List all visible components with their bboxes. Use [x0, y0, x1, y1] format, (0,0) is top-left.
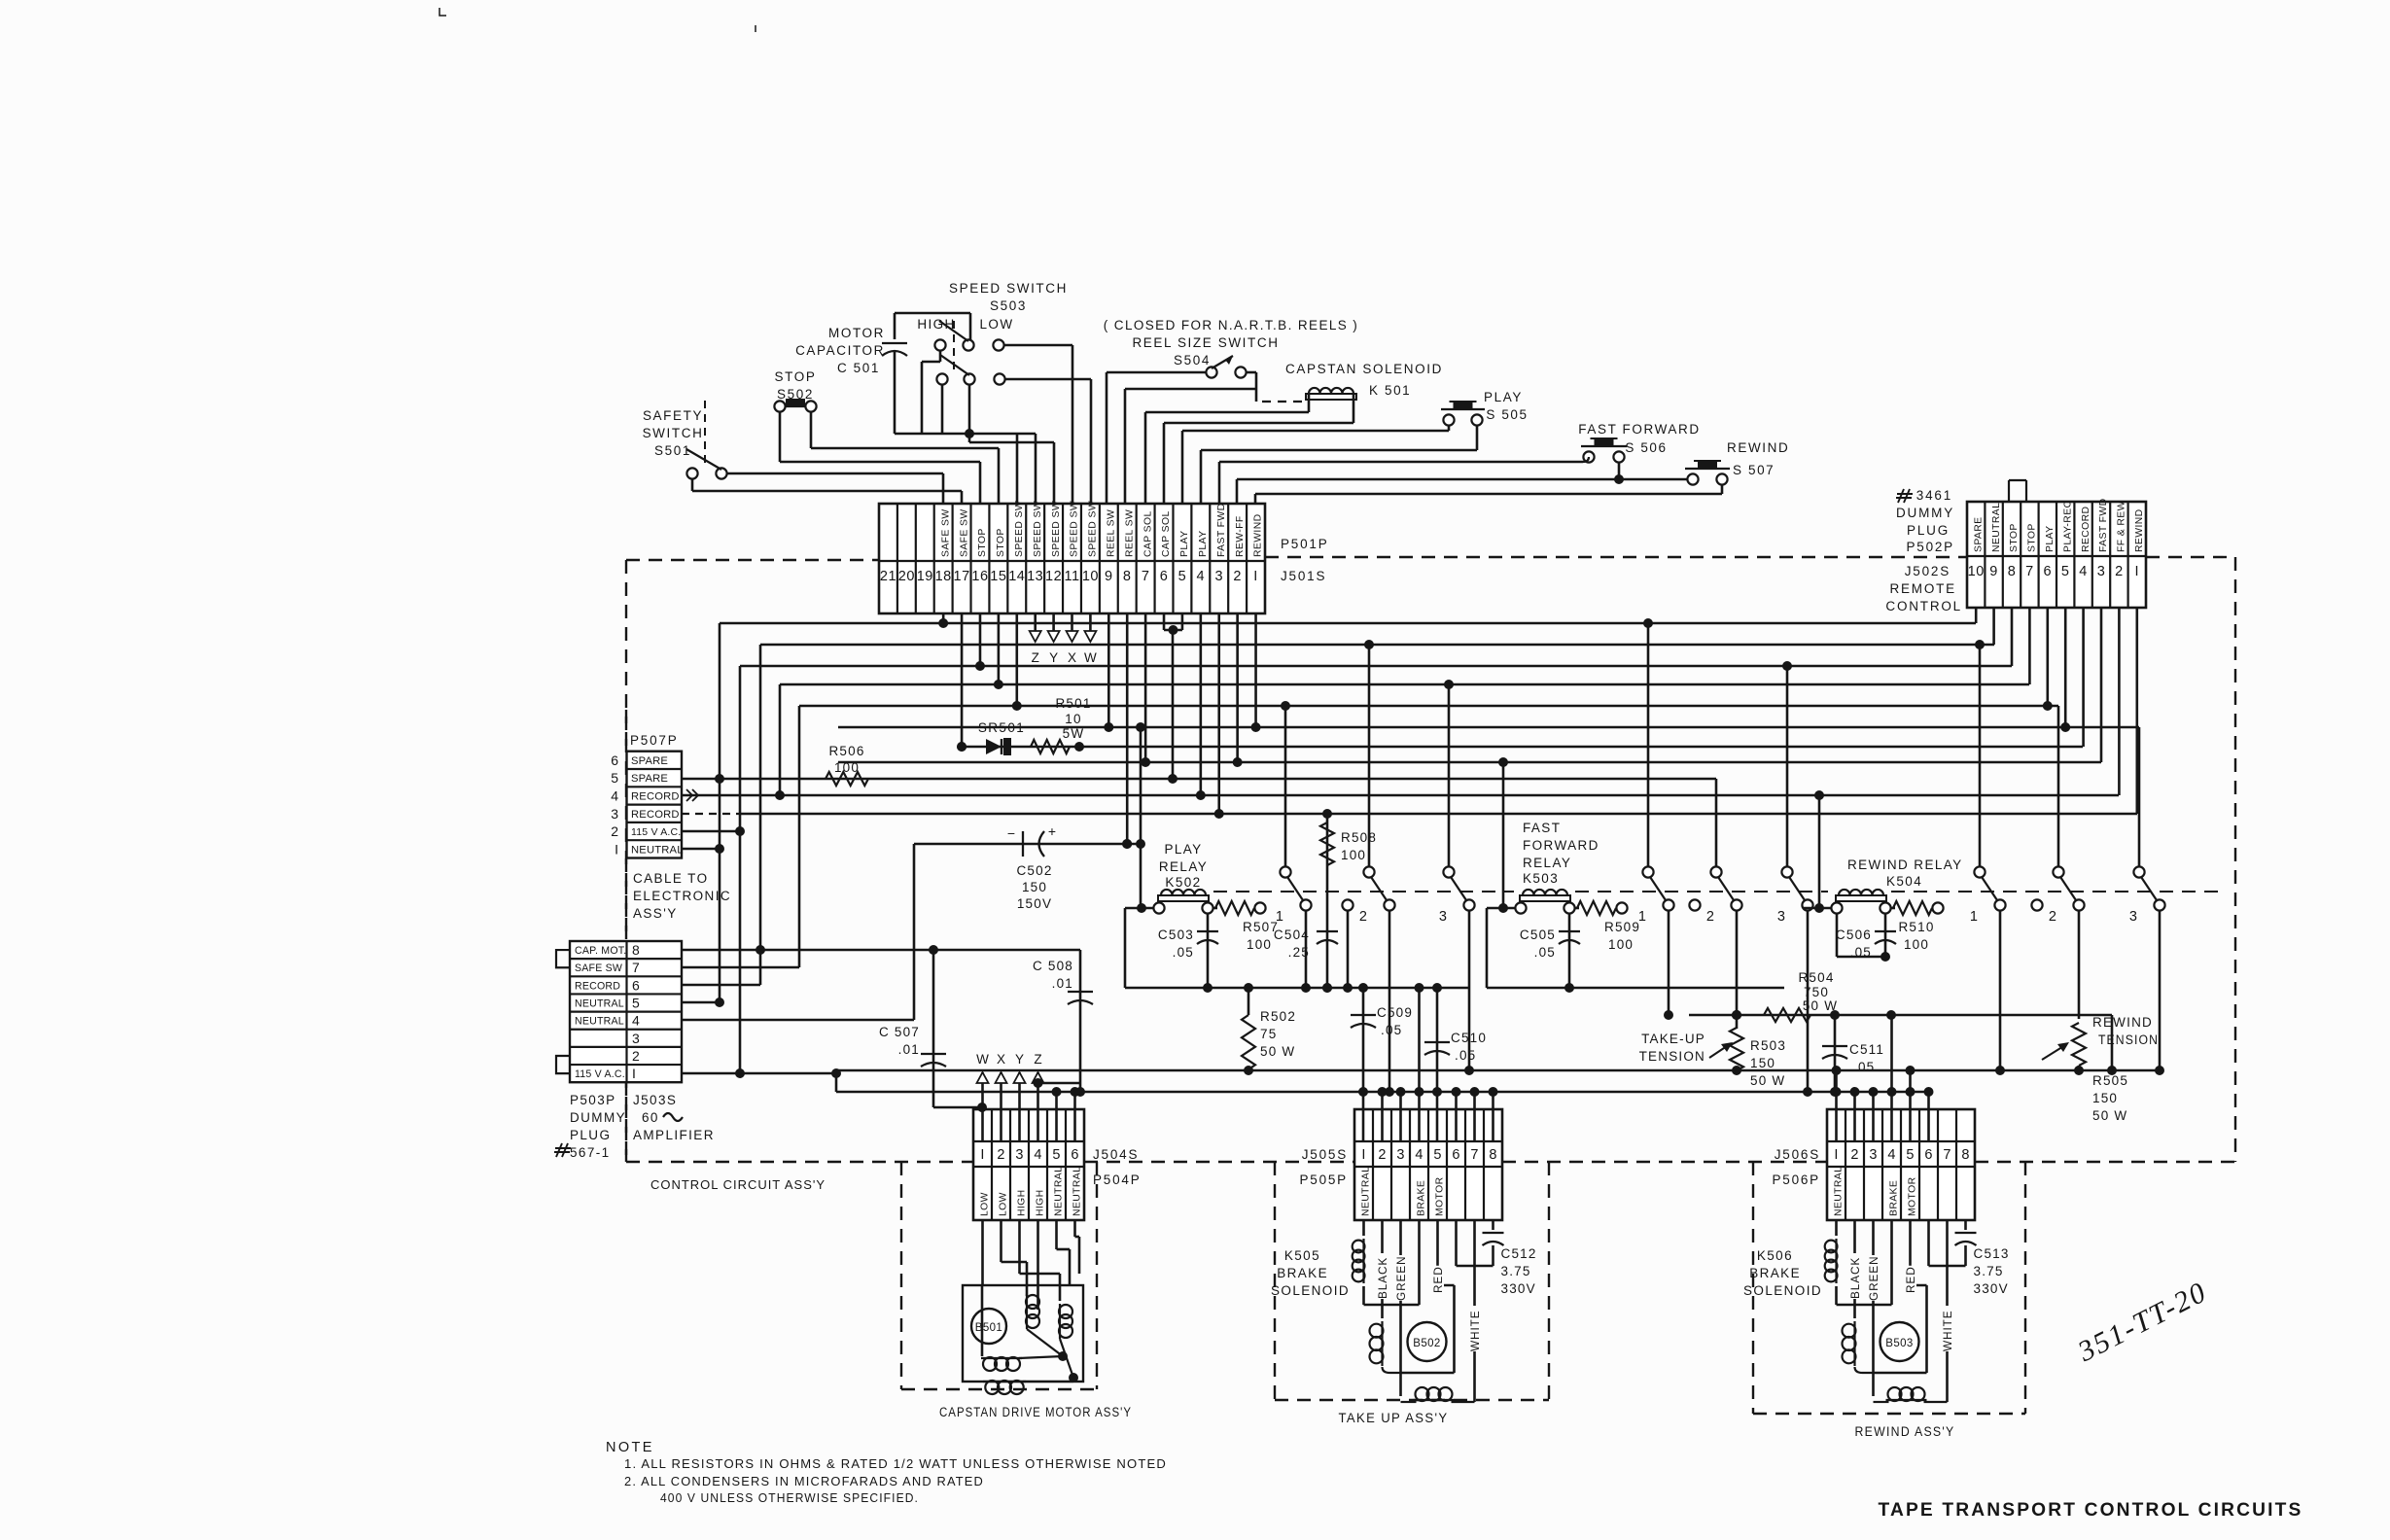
- svg-text:P502P: P502P: [1906, 540, 1954, 554]
- svg-text:C510: C510: [1451, 1031, 1487, 1045]
- svg-text:3: 3: [632, 1031, 640, 1046]
- svg-text:STOP: STOP: [996, 528, 1006, 557]
- svg-text:7: 7: [1142, 569, 1150, 584]
- svg-text:ELECTRONIC: ELECTRONIC: [633, 889, 731, 903]
- svg-text:LOW: LOW: [980, 1192, 991, 1216]
- svg-text:TAKE UP ASS'Y: TAKE UP ASS'Y: [1339, 1411, 1449, 1425]
- svg-text:I: I: [1834, 1147, 1838, 1163]
- svg-text:SPARE: SPARE: [631, 773, 668, 785]
- svg-text:GREEN: GREEN: [1394, 1256, 1408, 1301]
- connector P501P / J501S: [879, 504, 1265, 613]
- svg-text:5: 5: [1906, 1147, 1914, 1163]
- svg-text:REEL SW: REEL SW: [1124, 509, 1135, 557]
- svg-text:150: 150: [2092, 1091, 2118, 1105]
- svg-text:RECORD: RECORD: [575, 980, 620, 992]
- svg-text:SAFETY: SAFETY: [643, 408, 703, 423]
- svg-text:150: 150: [1022, 880, 1047, 894]
- svg-text:AMPLIFIER: AMPLIFIER: [633, 1128, 715, 1142]
- svg-text:I: I: [1253, 569, 1258, 584]
- svg-text:RED: RED: [1431, 1266, 1445, 1293]
- svg-text:PLUG: PLUG: [1907, 523, 1950, 538]
- svg-text:3: 3: [1396, 1147, 1404, 1163]
- svg-text:HIGH: HIGH: [1036, 1189, 1046, 1216]
- resistor R501 10 5W: [1031, 740, 1070, 753]
- svg-text:NEUTRAL: NEUTRAL: [1054, 1167, 1065, 1216]
- svg-text:C 507: C 507: [879, 1025, 920, 1039]
- svg-text:15: 15: [990, 569, 1006, 584]
- svg-text:BRAKE: BRAKE: [1749, 1266, 1801, 1280]
- svg-text:C509: C509: [1377, 1005, 1413, 1020]
- svg-text:330V: 330V: [1974, 1281, 2009, 1296]
- svg-text:115 V A.C.: 115 V A.C.: [575, 1068, 625, 1080]
- svg-text:TENSION: TENSION: [1639, 1049, 1705, 1064]
- svg-text:16: 16: [971, 569, 988, 584]
- svg-text:K502: K502: [1165, 875, 1201, 890]
- svg-text:REEL SW: REEL SW: [1107, 509, 1117, 557]
- svg-text:S 506: S 506: [1625, 440, 1667, 455]
- brake solenoid K505: [1362, 1220, 1365, 1236]
- svg-text:X: X: [1068, 650, 1076, 665]
- svg-text:7: 7: [1470, 1147, 1478, 1163]
- svg-text:P501P: P501P: [1281, 537, 1329, 551]
- svg-text:SPEED SW: SPEED SW: [1051, 501, 1062, 557]
- svg-text:150: 150: [1750, 1056, 1775, 1070]
- wire rewind motor leads: [1853, 1220, 1856, 1318]
- svg-text:SR501: SR501: [978, 720, 1025, 735]
- svg-text:PLAY: PLAY: [1198, 531, 1209, 557]
- svg-text:C511: C511: [1849, 1042, 1884, 1057]
- svg-text:REWIND: REWIND: [1727, 440, 1789, 455]
- capstan motor wires from J504S: [981, 1220, 984, 1285]
- svg-text:MOTOR: MOTOR: [1435, 1176, 1446, 1216]
- svg-text:SAFE SW: SAFE SW: [940, 508, 951, 557]
- wire lower bus y=1123: [836, 1091, 1928, 1094]
- svg-text:SPEED SW: SPEED SW: [1014, 501, 1025, 557]
- svg-text:STOP: STOP: [977, 528, 988, 557]
- svg-text:REMOTE: REMOTE: [1889, 581, 1956, 596]
- svg-text:I: I: [615, 841, 618, 857]
- svg-text:3: 3: [1214, 569, 1223, 584]
- svg-text:P503P: P503P: [570, 1093, 616, 1107]
- svg-text:100: 100: [1608, 937, 1634, 952]
- svg-text:TAPE TRANSPORT CONTROL CIRC: TAPE TRANSPORT CONTROL CIRCUITS: [1879, 1499, 2303, 1521]
- svg-text:2: 2: [2049, 909, 2056, 925]
- svg-text:FAST FORWARD: FAST FORWARD: [1578, 422, 1700, 437]
- svg-text:100: 100: [834, 760, 860, 775]
- svg-text:4: 4: [1034, 1147, 1041, 1163]
- svg-text:750: 750: [1804, 985, 1829, 999]
- connector J504S / P504P: [973, 1109, 1084, 1220]
- svg-text:TAKE-UP: TAKE-UP: [1641, 1032, 1705, 1046]
- svg-text:K504: K504: [1886, 874, 1922, 889]
- svg-text:.05: .05: [1381, 1023, 1402, 1037]
- svg-text:C 501: C 501: [837, 361, 880, 375]
- svg-text:4: 4: [2079, 564, 2088, 579]
- svg-text:3: 3: [2129, 909, 2137, 925]
- svg-text:6: 6: [1924, 1147, 1932, 1163]
- svg-text:J501S: J501S: [1281, 569, 1326, 583]
- svg-text:S 505: S 505: [1486, 407, 1528, 422]
- relay K503 contact 3: [1781, 866, 1792, 877]
- svg-text:100: 100: [1904, 937, 1929, 952]
- svg-text:400 V UNLESS OTHERWISE SPEC: 400 V UNLESS OTHERWISE SPECIFIED.: [660, 1490, 919, 1505]
- capacitor C508 .01: [682, 949, 1080, 952]
- motor B503: [1880, 1322, 1919, 1361]
- svg-text:C512: C512: [1501, 1246, 1537, 1261]
- svg-text:REEL SIZE SWITCH: REEL SIZE SWITCH: [1132, 335, 1279, 350]
- svg-text:8: 8: [632, 942, 640, 958]
- svg-text:11: 11: [1064, 569, 1079, 584]
- svg-text:ASS'Y: ASS'Y: [633, 906, 678, 921]
- svg-text:CAP. MOT.: CAP. MOT.: [575, 945, 626, 957]
- svg-text:115 V A.C.: 115 V A.C.: [631, 826, 681, 838]
- svg-text:I: I: [1361, 1147, 1365, 1163]
- svg-text:FF & REW: FF & REW: [2117, 501, 2127, 552]
- svg-text:NEUTRAL: NEUTRAL: [1991, 503, 2002, 552]
- svg-text:K503: K503: [1523, 871, 1559, 886]
- svg-text:CAPACITOR: CAPACITOR: [795, 343, 885, 358]
- svg-text:CABLE TO: CABLE TO: [633, 871, 708, 886]
- svg-text:20: 20: [898, 569, 915, 584]
- connector J505S / P505P: [1354, 1109, 1502, 1220]
- svg-text:2: 2: [632, 1048, 640, 1064]
- svg-text:SWITCH: SWITCH: [643, 426, 704, 440]
- relay K504 contact 2: [2053, 866, 2063, 877]
- wire takeup motor leads: [1381, 1220, 1384, 1318]
- wire lower bus y=1101: [836, 1069, 2160, 1072]
- svg-text:BLACK: BLACK: [1376, 1257, 1389, 1299]
- svg-text:B501: B501: [975, 1322, 1002, 1334]
- svg-text:5: 5: [611, 770, 618, 786]
- relay K502 contact 3: [1443, 866, 1454, 877]
- svg-text:CONTROL: CONTROL: [1885, 599, 1962, 613]
- svg-text:R503: R503: [1750, 1038, 1786, 1053]
- svg-text:2: 2: [611, 823, 618, 839]
- svg-text:DUMMY: DUMMY: [570, 1110, 626, 1125]
- svg-text:2: 2: [1850, 1147, 1858, 1163]
- svg-text:150V: 150V: [1017, 896, 1052, 911]
- svg-text:RELAY: RELAY: [1159, 859, 1208, 874]
- svg-text:STOP: STOP: [2027, 523, 2038, 552]
- svg-text:2: 2: [1378, 1147, 1386, 1163]
- svg-text:NEUTRAL: NEUTRAL: [1834, 1167, 1845, 1216]
- J506S pin feeds: [1835, 1070, 1838, 1141]
- svg-text:50 W: 50 W: [1260, 1044, 1295, 1059]
- capacitor C513 3.75 330V: [1964, 1220, 1967, 1230]
- svg-text:PLAY: PLAY: [2045, 526, 2056, 552]
- svg-text:10: 10: [1082, 569, 1099, 584]
- svg-text:50 W: 50 W: [1750, 1073, 1785, 1088]
- svg-text:17: 17: [954, 569, 970, 584]
- svg-text:2: 2: [997, 1147, 1004, 1163]
- svg-text:SPEED SW: SPEED SW: [1033, 501, 1043, 557]
- svg-text:SOLENOID: SOLENOID: [1271, 1283, 1350, 1298]
- svg-text:5: 5: [1052, 1147, 1060, 1163]
- svg-text:C504: C504: [1274, 927, 1310, 942]
- svg-text:K506: K506: [1757, 1248, 1793, 1263]
- svg-text:75: 75: [1260, 1027, 1277, 1041]
- svg-text:8: 8: [1123, 569, 1132, 584]
- svg-text:+: +: [1048, 823, 1056, 839]
- svg-text:2: 2: [2115, 564, 2124, 579]
- svg-text:7: 7: [2025, 564, 2034, 579]
- svg-text:6: 6: [632, 977, 640, 993]
- svg-text:BRAKE: BRAKE: [1277, 1266, 1328, 1280]
- svg-text:2: 2: [1233, 569, 1242, 584]
- svg-text:Y: Y: [1049, 650, 1058, 665]
- relay K504 contact 1: [1974, 866, 1985, 877]
- svg-text:LOW: LOW: [999, 1192, 1009, 1216]
- svg-text:Z: Z: [1032, 650, 1039, 665]
- svg-text:3461: 3461: [1916, 488, 1952, 503]
- svg-text:9: 9: [1105, 569, 1113, 584]
- svg-text:C502: C502: [1016, 863, 1052, 878]
- svg-text:FAST: FAST: [1523, 821, 1561, 835]
- svg-text:5: 5: [1178, 569, 1187, 584]
- svg-text:R505: R505: [2092, 1073, 2128, 1088]
- svg-text:3: 3: [1015, 1147, 1023, 1163]
- wire relay bottom buses: [1125, 987, 1470, 990]
- svg-text:K 501: K 501: [1369, 383, 1411, 398]
- svg-text:NEUTRAL: NEUTRAL: [1072, 1167, 1083, 1216]
- svg-text:R510: R510: [1898, 920, 1934, 934]
- svg-text:I: I: [632, 1066, 636, 1081]
- svg-text:2: 2: [1706, 909, 1714, 925]
- svg-text:19: 19: [917, 569, 933, 584]
- svg-text:2. ALL CONDENSERS IN MICRO: 2. ALL CONDENSERS IN MICROFARADS AND RAT…: [624, 1474, 984, 1488]
- svg-text:1: 1: [1276, 909, 1283, 925]
- svg-text:.05: .05: [1173, 945, 1194, 960]
- svg-text:BRAKE: BRAKE: [1417, 1180, 1427, 1216]
- capacitor C512 3.75 330V: [1492, 1220, 1494, 1230]
- svg-text:6: 6: [1452, 1147, 1459, 1163]
- svg-text:RELAY: RELAY: [1523, 856, 1571, 870]
- svg-text:5: 5: [2061, 564, 2070, 579]
- capacitor C502 150 150V: [914, 843, 1141, 846]
- svg-text:1: 1: [1970, 909, 1978, 925]
- rectifier SR501: [962, 746, 2083, 749]
- resistor R504 750 50W: [1689, 1014, 2112, 1017]
- svg-text:100: 100: [1247, 937, 1272, 952]
- dummy plug jumper stub above J502S: [2008, 480, 2010, 502]
- resistor R502 75 50W: [1248, 988, 1250, 1015]
- svg-text:9: 9: [1989, 564, 1998, 579]
- svg-text:100: 100: [1341, 848, 1366, 862]
- svg-text:4: 4: [1197, 569, 1206, 584]
- svg-text:BRAKE: BRAKE: [1889, 1180, 1900, 1216]
- svg-text:STOP: STOP: [775, 369, 817, 384]
- svg-text:C503: C503: [1158, 927, 1194, 942]
- svg-text:18: 18: [935, 569, 952, 584]
- svg-text:W: W: [1084, 650, 1097, 665]
- svg-text:SPEED SWITCH: SPEED SWITCH: [949, 281, 1068, 296]
- svg-text:REWIND ASS'Y: REWIND ASS'Y: [1855, 1424, 1955, 1439]
- svg-text:1: 1: [1638, 909, 1646, 925]
- wire bus lines: [720, 622, 1976, 625]
- J505S pin feeds: [1381, 1092, 1384, 1141]
- svg-text:21: 21: [880, 569, 896, 584]
- motor B502: [1408, 1322, 1447, 1361]
- svg-text:3: 3: [2097, 564, 2106, 579]
- svg-text:DUMMY: DUMMY: [1896, 506, 1954, 520]
- svg-text:.01: .01: [898, 1042, 920, 1057]
- svg-text:.05: .05: [1534, 945, 1556, 960]
- svg-text:REWIND: REWIND: [2134, 508, 2145, 552]
- svg-text:REWIND: REWIND: [2092, 1015, 2153, 1030]
- svg-text:S501: S501: [654, 443, 691, 458]
- connector P503P / J503S: [570, 941, 682, 1082]
- relay K504 contact 3: [2133, 866, 2144, 877]
- svg-text:I: I: [980, 1147, 984, 1163]
- svg-text:C 508: C 508: [1033, 959, 1073, 973]
- svg-text:X: X: [997, 1052, 1005, 1067]
- node Z Y X W taps below pins 13-10: [1034, 613, 1037, 631]
- svg-text:2: 2: [1359, 909, 1367, 925]
- svg-text:S504: S504: [1174, 353, 1211, 367]
- svg-text:4: 4: [1415, 1147, 1423, 1163]
- potentiometer R503 150 50W take-up tension: [1736, 1015, 1739, 1029]
- svg-text:CONTROL CIRCUIT ASS'Y: CONTROL CIRCUIT ASS'Y: [650, 1177, 826, 1192]
- capacitor C509 .05: [1362, 988, 1365, 1141]
- svg-text:NEUTRAL: NEUTRAL: [1361, 1167, 1372, 1216]
- svg-text:J504S: J504S: [1093, 1147, 1139, 1162]
- connector J506S / P506P: [1827, 1109, 1975, 1220]
- svg-text:NEUTRAL: NEUTRAL: [575, 1016, 624, 1028]
- svg-text:.05: .05: [1853, 1060, 1875, 1074]
- svg-text:FORWARD: FORWARD: [1523, 838, 1599, 853]
- svg-text:14: 14: [1008, 569, 1025, 584]
- svg-text:SPARE: SPARE: [1973, 517, 1984, 552]
- svg-text:6: 6: [1160, 569, 1169, 584]
- svg-text:1. ALL RESISTORS IN OHMS: 1. ALL RESISTORS IN OHMS & RATED 1/2 WAT…: [624, 1456, 1167, 1471]
- svg-text:12: 12: [1045, 569, 1062, 584]
- svg-text:W: W: [976, 1052, 989, 1067]
- svg-text:RECORD: RECORD: [631, 809, 680, 821]
- take up assembly dashed box: [1274, 1162, 1276, 1400]
- relay K503 contact 1: [1642, 866, 1653, 877]
- svg-text:CAPSTAN DRIVE MOTOR ASS'Y: CAPSTAN DRIVE MOTOR ASS'Y: [939, 1405, 1132, 1419]
- svg-text:Z: Z: [1034, 1052, 1041, 1067]
- svg-text:SPARE: SPARE: [631, 755, 668, 767]
- svg-text:60: 60: [642, 1110, 659, 1125]
- svg-text:10: 10: [1968, 564, 1985, 579]
- svg-text:FAST FWD: FAST FWD: [1216, 503, 1227, 557]
- svg-text:3: 3: [611, 806, 618, 822]
- svg-text:8: 8: [1489, 1147, 1496, 1163]
- svg-text:B502: B502: [1413, 1338, 1440, 1349]
- svg-text:SAFE SW: SAFE SW: [575, 962, 622, 974]
- svg-text:S503: S503: [990, 298, 1027, 313]
- relay K503 contact 2: [1710, 866, 1721, 877]
- svg-text:3.75: 3.75: [1501, 1264, 1531, 1278]
- svg-text:SPEED SW: SPEED SW: [1070, 501, 1080, 557]
- svg-text:C513: C513: [1974, 1246, 2010, 1261]
- svg-text:6: 6: [611, 752, 618, 768]
- svg-text:MOTOR: MOTOR: [828, 326, 885, 340]
- svg-text:PLUG: PLUG: [570, 1128, 611, 1142]
- svg-text:7: 7: [632, 960, 640, 975]
- svg-text:330V: 330V: [1501, 1281, 1536, 1296]
- svg-text:GREEN: GREEN: [1867, 1256, 1880, 1301]
- svg-text:C506: C506: [1836, 927, 1872, 942]
- svg-text:P506P: P506P: [1772, 1172, 1820, 1187]
- svg-text:REW-FF: REW-FF: [1235, 515, 1246, 557]
- svg-text:S 507: S 507: [1733, 463, 1775, 477]
- svg-text:J506S: J506S: [1775, 1147, 1820, 1162]
- relay K502 contact 1: [1280, 866, 1290, 877]
- relay K502 contact 2: [1363, 866, 1374, 877]
- svg-text:P505P: P505P: [1299, 1172, 1348, 1187]
- capstan drive motor assembly dashed box: [900, 1162, 902, 1389]
- svg-text:SAFE SW: SAFE SW: [959, 508, 969, 557]
- svg-text:NEUTRAL: NEUTRAL: [575, 998, 624, 1010]
- rewind assembly dashed box: [1752, 1162, 1754, 1414]
- svg-text:RECORD: RECORD: [2081, 507, 2091, 552]
- svg-text:TENSION: TENSION: [2098, 1032, 2159, 1047]
- svg-text:8: 8: [2008, 564, 2017, 579]
- svg-text:RED: RED: [1904, 1266, 1917, 1293]
- resistor R508 100 / capacitor C504 .25: [1326, 814, 1329, 988]
- svg-text:7: 7: [1943, 1147, 1951, 1163]
- svg-text:4: 4: [632, 1013, 640, 1029]
- svg-text:PLAY: PLAY: [1179, 531, 1190, 557]
- svg-text:4: 4: [611, 787, 618, 803]
- svg-text:J503S: J503S: [633, 1093, 677, 1107]
- svg-text:5: 5: [1433, 1147, 1441, 1163]
- svg-text:WHITE: WHITE: [1941, 1310, 1954, 1351]
- svg-text:3: 3: [1777, 909, 1785, 925]
- svg-text:P507P: P507P: [630, 733, 679, 748]
- svg-text:R501: R501: [1055, 696, 1091, 711]
- svg-text:WHITE: WHITE: [1468, 1310, 1482, 1351]
- svg-text:LOW: LOW: [980, 317, 1014, 332]
- motor B501: [963, 1285, 1083, 1382]
- node W X Y Z motor taps above J504S: [981, 1072, 984, 1141]
- svg-text:SPEED SW: SPEED SW: [1088, 501, 1099, 557]
- svg-text:MOTOR: MOTOR: [1908, 1176, 1918, 1216]
- svg-text:P504P: P504P: [1093, 1172, 1142, 1187]
- svg-text:NOTE: NOTE: [606, 1440, 654, 1455]
- svg-text:R504: R504: [1798, 970, 1834, 985]
- svg-text:I: I: [2135, 564, 2140, 579]
- svg-text:6: 6: [2044, 564, 2053, 579]
- svg-text:R509: R509: [1604, 920, 1640, 934]
- svg-text:CAPSTAN SOLENOID: CAPSTAN SOLENOID: [1285, 362, 1443, 376]
- svg-text:6: 6: [1071, 1147, 1078, 1163]
- svg-text:PLAY-REC: PLAY-REC: [2062, 500, 2073, 552]
- brake solenoid K506: [1835, 1220, 1838, 1236]
- svg-text:8: 8: [1961, 1147, 1969, 1163]
- svg-text:567-1: 567-1: [570, 1145, 611, 1160]
- svg-text:50 W: 50 W: [2092, 1108, 2127, 1123]
- svg-text:REWIND RELAY: REWIND RELAY: [1847, 857, 1963, 872]
- svg-text:K505: K505: [1284, 1248, 1320, 1263]
- capacitor C511 .05: [1834, 1015, 1837, 1092]
- resistor R506 100: [682, 778, 1716, 781]
- svg-text:RECORD: RECORD: [631, 790, 680, 802]
- svg-text:C505: C505: [1520, 927, 1556, 942]
- svg-text:J505S: J505S: [1302, 1147, 1348, 1162]
- svg-text:10: 10: [1065, 712, 1081, 726]
- svg-text:CAP SOL: CAP SOL: [1142, 510, 1153, 557]
- svg-text:PLAY: PLAY: [1484, 390, 1523, 404]
- svg-text:.05: .05: [1455, 1048, 1476, 1063]
- svg-text:Y: Y: [1015, 1052, 1024, 1067]
- capacitor C510 .05: [1436, 988, 1439, 1141]
- svg-text:PLAY: PLAY: [1164, 842, 1202, 857]
- svg-text:SOLENOID: SOLENOID: [1743, 1283, 1822, 1298]
- svg-text:13: 13: [1027, 569, 1043, 584]
